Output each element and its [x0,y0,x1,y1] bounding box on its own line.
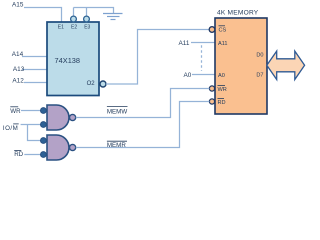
gate G1 output bubble [70,114,76,120]
net MEMR label [107,141,127,149]
svg-text:O2: O2 [87,81,96,87]
pin E2 bubble [71,16,77,22]
svg-text:WR: WR [218,87,227,93]
svg-text:WR: WR [10,108,21,115]
net MEMW label [107,107,128,116]
svg-text:MEMW: MEMW [107,108,127,115]
ground [103,14,123,20]
pin CS label [219,26,227,34]
svg-text:E2: E2 [71,24,77,30]
svg-text:A11: A11 [218,41,228,47]
wire A14 [22,56,47,58]
wire MEMW to memory WR [76,89,210,118]
wire IO/M branch to gate2 [28,125,41,141]
node RD [14,151,23,158]
svg-text:A15: A15 [12,2,24,9]
wire E3 stem [86,8,88,17]
pin RD label [218,98,226,106]
pin WR bubble [209,86,214,91]
svg-text:E3: E3 [84,24,90,30]
wire A12 [24,82,47,84]
gate G2 (MEMR) [47,135,69,160]
pin RD bubble [209,99,214,104]
wire IO/M to gate1 [21,124,41,126]
wire RD to gate2 [24,154,40,156]
wire A13 [22,69,47,71]
pin WR label [218,85,227,93]
svg-text:E1: E1 [58,24,64,30]
wire A0 [192,74,215,76]
svg-text:74X138: 74X138 [55,56,80,65]
svg-text:A12: A12 [12,77,24,84]
pin O2 bubble [100,81,106,87]
gate G2 input bubble 2 [41,152,47,158]
wire MEMR to memory RD [76,102,210,148]
pin CS bubble [209,27,215,33]
decoder U1 74X138 [47,22,99,96]
dashed address range line [201,45,203,71]
svg-text:RD: RD [218,100,226,106]
gate G1 input bubble 1 [41,108,47,114]
gate G2 input bubble 1 [41,138,47,144]
svg-text:4K MEMORY: 4K MEMORY [217,10,259,17]
memory U2 4K MEMORY [215,18,267,114]
gate G1 (MEMW) [47,105,69,130]
svg-text:A0: A0 [218,73,225,79]
svg-text:CS: CS [219,28,227,34]
wire O2 to CS [106,30,209,85]
wire WR to gate1 [21,110,41,112]
wire A11 [191,42,215,44]
svg-text:D7: D7 [256,72,263,78]
node IO/M [3,124,19,132]
svg-text:A14: A14 [12,51,24,58]
svg-text:A11: A11 [179,40,190,47]
svg-text:A0: A0 [184,72,192,79]
gate G1 input bubble 2 [41,122,47,128]
svg-text:D0: D0 [256,53,263,59]
data bus arrow [267,51,305,79]
wire A15 to E1 [24,8,62,23]
svg-text:A13: A13 [13,66,25,73]
node WR [10,107,21,115]
wire E2/E3 to ground [74,8,114,14]
wire E2 stem [73,8,75,17]
gate G2 output bubble [70,144,76,150]
pin E3 bubble [84,16,90,22]
svg-text:RD: RD [14,151,23,158]
svg-text:IO/M: IO/M [3,125,18,132]
svg-text:MEMR: MEMR [107,142,126,149]
